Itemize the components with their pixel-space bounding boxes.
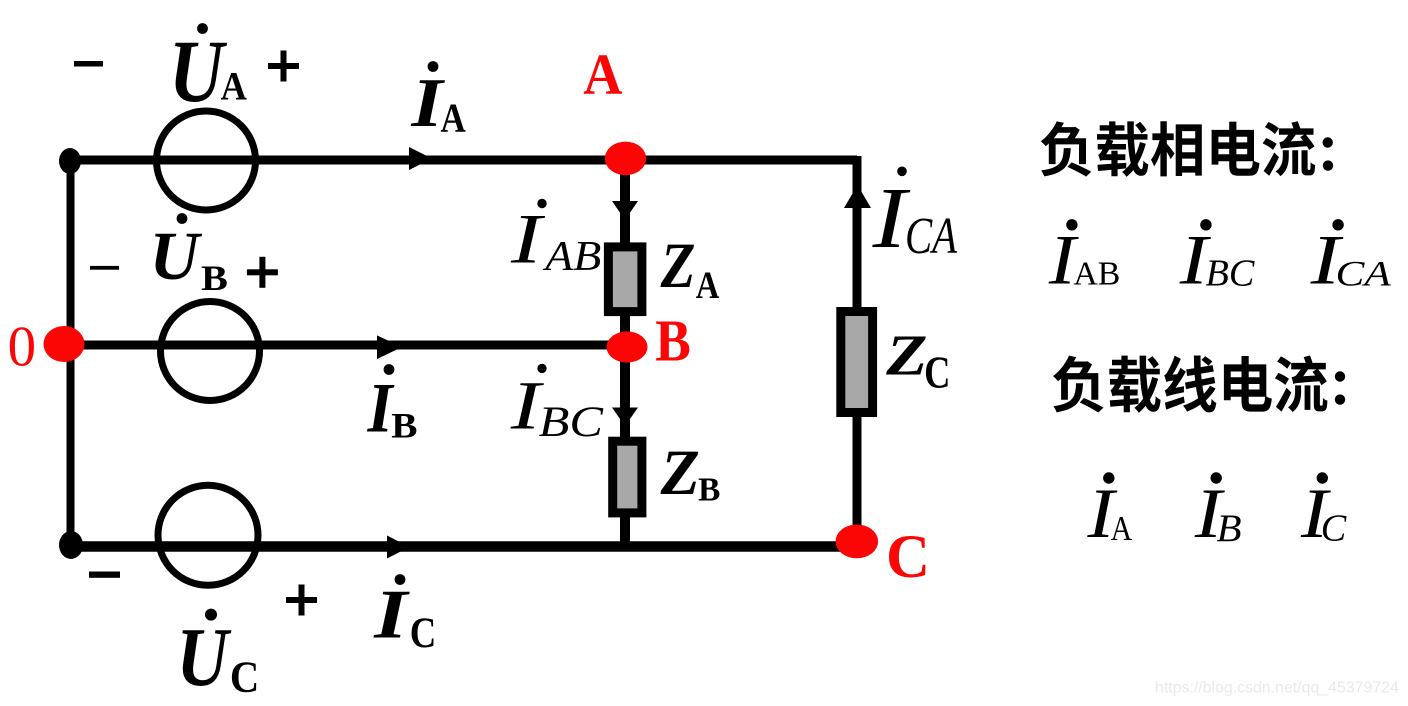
svg-text:B: B bbox=[655, 308, 691, 374]
svg-text:I: I bbox=[373, 576, 410, 653]
svg-text:B: B bbox=[698, 472, 720, 509]
svg-text:B: B bbox=[1217, 506, 1242, 550]
svg-text:A: A bbox=[696, 263, 720, 306]
svg-text:B: B bbox=[391, 406, 417, 446]
svg-text:A: A bbox=[441, 96, 467, 141]
svg-text:CA: CA bbox=[1336, 254, 1392, 293]
svg-text:https://blog.csdn.net/qq_45379: https://blog.csdn.net/qq_45379724 bbox=[1155, 680, 1399, 697]
svg-text:C: C bbox=[1321, 508, 1347, 550]
svg-text:U: U bbox=[177, 610, 232, 703]
svg-text:0: 0 bbox=[8, 315, 36, 378]
svg-text:B: B bbox=[201, 259, 228, 299]
svg-text:Z: Z bbox=[660, 437, 700, 508]
svg-text:A: A bbox=[1111, 509, 1133, 547]
svg-text:I: I bbox=[510, 200, 546, 278]
svg-text:Z: Z bbox=[885, 323, 927, 388]
svg-text:C: C bbox=[886, 524, 930, 591]
svg-text:AB: AB bbox=[542, 233, 601, 280]
svg-text:A: A bbox=[221, 65, 248, 109]
svg-text:Z: Z bbox=[660, 231, 696, 302]
svg-text:U: U bbox=[150, 218, 203, 294]
svg-text:A: A bbox=[583, 43, 622, 107]
svg-text:CA: CA bbox=[905, 209, 958, 266]
svg-text:BC: BC bbox=[1206, 252, 1255, 294]
svg-text:AB: AB bbox=[1073, 255, 1120, 292]
svg-text:U: U bbox=[169, 21, 228, 120]
svg-text:BC: BC bbox=[539, 398, 604, 446]
svg-text:C: C bbox=[230, 653, 259, 702]
svg-text:C: C bbox=[924, 347, 950, 398]
svg-text:C: C bbox=[410, 608, 437, 656]
